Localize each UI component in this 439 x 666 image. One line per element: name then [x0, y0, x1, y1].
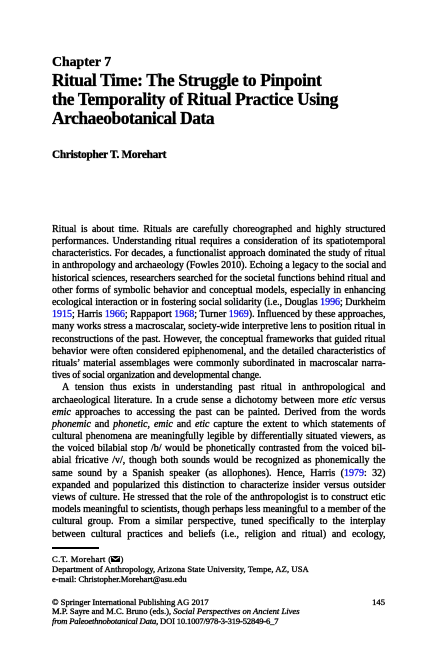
body paragraph 2 — [52, 382, 386, 394]
footnote rule — [52, 547, 99, 548]
chapter title — [52, 71, 338, 128]
footnote block — [52, 555, 309, 585]
author — [52, 149, 166, 161]
chapter number — [52, 55, 111, 69]
copyright block — [52, 598, 385, 628]
body paragraph 1 — [52, 224, 386, 541]
